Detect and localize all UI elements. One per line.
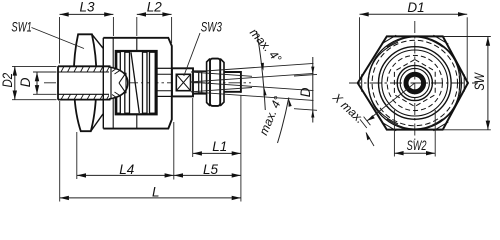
svg-text:L5: L5 bbox=[203, 162, 219, 177]
svg-text:SW2: SW2 bbox=[407, 139, 427, 153]
svg-text:L: L bbox=[152, 185, 160, 200]
svg-text:SW1: SW1 bbox=[11, 20, 31, 35]
svg-text:D1: D1 bbox=[407, 0, 424, 15]
svg-text:L4: L4 bbox=[119, 162, 134, 177]
svg-text:max. 4°: max. 4° bbox=[247, 26, 284, 66]
svg-text:L2: L2 bbox=[147, 0, 163, 14]
svg-text:L1: L1 bbox=[212, 139, 227, 154]
svg-text:L3: L3 bbox=[80, 0, 96, 14]
svg-text:D2: D2 bbox=[0, 73, 15, 88]
svg-text:SW: SW bbox=[472, 72, 487, 91]
svg-text:D: D bbox=[18, 77, 33, 87]
svg-text:D: D bbox=[298, 87, 313, 97]
svg-text:SW3: SW3 bbox=[201, 20, 222, 35]
svg-text:X max.: X max. bbox=[329, 90, 367, 126]
